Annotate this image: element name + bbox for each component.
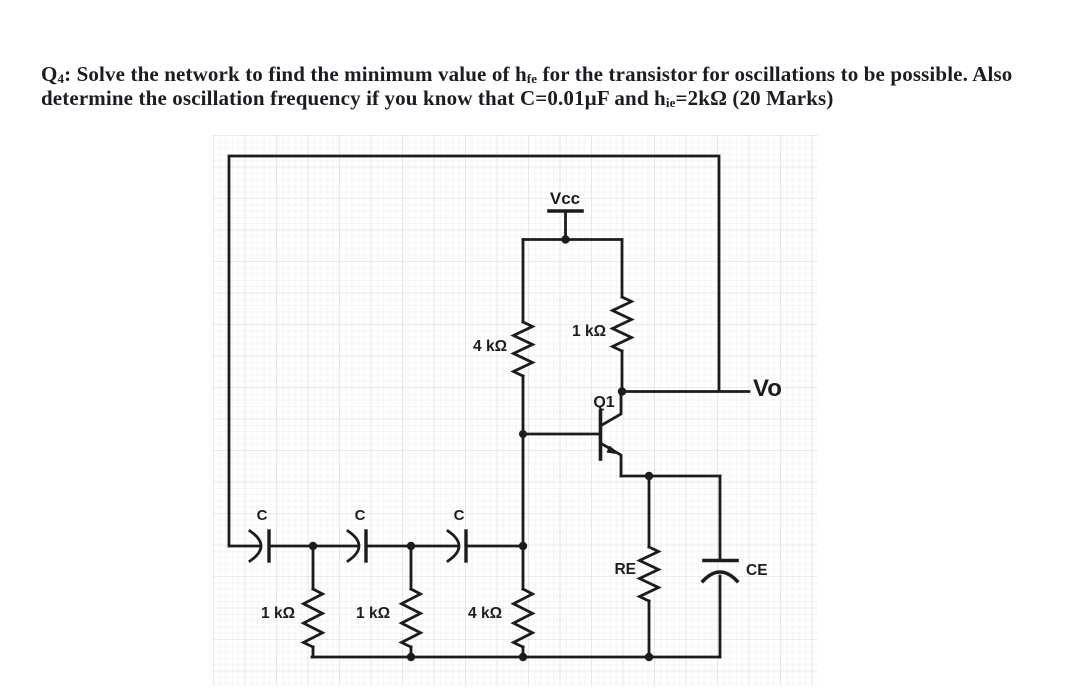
transistor Q1 (NPN) [601, 391, 622, 476]
capacitor C (third, phase-shift) [411, 531, 523, 561]
power Vcc symbol [549, 211, 582, 240]
question text [41, 63, 1051, 110]
svg-text:4 kΩ: 4 kΩ [473, 338, 507, 355]
capacitor CE (emitter bypass, curved plate) [703, 476, 737, 657]
svg-text:RE: RE [614, 561, 636, 578]
wire: base node vertical [522, 434, 525, 589]
svg-text:1 kΩ: 1 kΩ [572, 323, 606, 340]
wire: base lead [523, 433, 600, 436]
node: rail junction at RE [645, 653, 653, 661]
svg-text:4 kΩ: 4 kΩ [468, 605, 502, 622]
resistor 1 kOhm (collector branch) [613, 240, 632, 392]
node: second RC junction [407, 542, 415, 550]
svg-text:1 kΩ: 1 kΩ [261, 605, 295, 622]
svg-text:1 kΩ: 1 kΩ [356, 605, 390, 622]
resistor 1 kOhm (second shunt) [402, 546, 421, 657]
node: third RC junction (base node) [519, 542, 527, 550]
capacitor C (second, phase-shift) [313, 531, 411, 561]
svg-text:CE: CE [746, 562, 768, 579]
svg-text:Vcc: Vcc [550, 189, 580, 208]
node: base junction on bias line [519, 430, 527, 438]
capacitor C (first, phase-shift) [229, 531, 313, 561]
graph paper panel [213, 135, 818, 686]
node: first RC junction [309, 542, 317, 550]
wire: emitter rail to CE [621, 475, 720, 478]
node: Vcc junction [561, 235, 569, 243]
svg-text:Q1: Q1 [593, 394, 614, 411]
wire: top rail from bias branch to collector branch [523, 238, 622, 241]
svg-text:C: C [454, 507, 465, 524]
node: rail junction at second shunt [407, 653, 415, 661]
wire: collector to output Vo [622, 390, 749, 393]
svg-text:C: C [257, 507, 268, 524]
svg-text:Vo: Vo [753, 375, 782, 402]
resistor 4 kOhm (third shunt) [514, 589, 533, 657]
node: collector junction [618, 387, 626, 395]
resistor 1 kOhm (first shunt) [304, 546, 323, 657]
resistor 4 kOhm (bias, top left branch) [514, 240, 533, 435]
node: emitter junction [645, 472, 653, 480]
resistor RE (emitter) [640, 476, 659, 657]
wire: bottom ground rail [312, 656, 720, 659]
node: rail junction at third shunt [519, 653, 527, 661]
svg-text:C: C [355, 507, 366, 524]
wire: feedback loop (left side, top, right side) [229, 156, 719, 546]
